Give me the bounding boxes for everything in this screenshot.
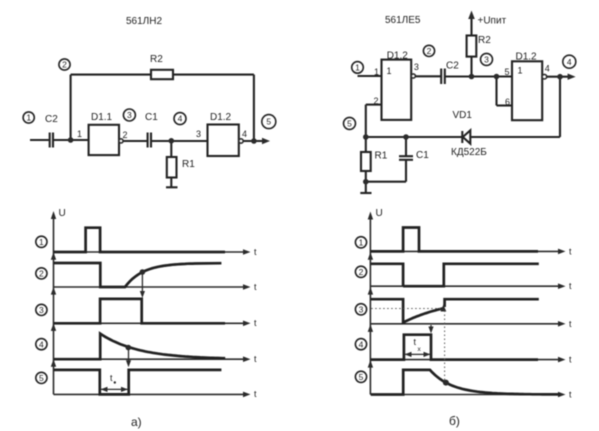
svg-text:3: 3 [127, 110, 132, 120]
svg-text:5: 5 [347, 119, 352, 129]
svg-text:R2: R2 [478, 35, 491, 46]
svg-text:D1.1: D1.1 [91, 112, 113, 123]
svg-text:+Uпит: +Uпит [478, 16, 507, 27]
svg-text:3: 3 [39, 305, 44, 315]
svg-text:C2: C2 [446, 61, 459, 72]
svg-text:а): а) [131, 415, 142, 429]
svg-text:3: 3 [414, 62, 419, 72]
svg-text:1: 1 [359, 237, 364, 247]
svg-text:D1.2: D1.2 [516, 52, 538, 63]
svg-text:1: 1 [387, 66, 392, 76]
svg-text:561ЛЕ5: 561ЛЕ5 [385, 15, 421, 26]
svg-text:4: 4 [359, 339, 364, 349]
svg-text:C2: C2 [45, 114, 58, 125]
svg-text:2: 2 [123, 130, 128, 140]
svg-text:3: 3 [196, 129, 201, 139]
svg-text:5: 5 [39, 373, 44, 383]
svg-text:VD1: VD1 [453, 110, 473, 121]
svg-text:4: 4 [545, 64, 550, 74]
svg-text:2: 2 [427, 46, 432, 56]
svg-text:C1: C1 [416, 150, 429, 161]
svg-text:D1.2: D1.2 [210, 112, 232, 123]
svg-text:3: 3 [359, 304, 364, 314]
svg-text:б): б) [449, 414, 460, 428]
svg-text:1: 1 [77, 129, 82, 139]
svg-text:2: 2 [62, 60, 67, 70]
svg-text:2: 2 [39, 269, 44, 279]
svg-text:5: 5 [359, 372, 364, 382]
svg-text:1: 1 [518, 66, 523, 76]
svg-text:4: 4 [178, 114, 183, 124]
svg-text:U: U [376, 208, 383, 219]
svg-text:D1.2: D1.2 [387, 51, 409, 62]
svg-text:5: 5 [266, 117, 271, 127]
svg-text:561ЛН2: 561ЛН2 [126, 16, 162, 27]
svg-text:КД522Б: КД522Б [451, 147, 487, 158]
svg-text:4: 4 [242, 129, 247, 139]
svg-text:C1: C1 [145, 112, 158, 123]
svg-text:4: 4 [39, 339, 44, 349]
svg-text:R2: R2 [150, 54, 163, 65]
svg-text:2: 2 [359, 267, 364, 277]
svg-text:U: U [59, 208, 66, 219]
svg-text:R1: R1 [375, 151, 388, 162]
svg-text:R1: R1 [182, 159, 195, 170]
svg-text:3: 3 [484, 55, 489, 65]
svg-text:4: 4 [567, 57, 572, 67]
svg-text:1: 1 [355, 63, 360, 73]
svg-text:1: 1 [374, 67, 379, 77]
svg-text:1: 1 [26, 113, 31, 123]
svg-text:5: 5 [505, 67, 510, 77]
svg-text:6: 6 [505, 97, 510, 107]
svg-text:1: 1 [39, 237, 44, 247]
